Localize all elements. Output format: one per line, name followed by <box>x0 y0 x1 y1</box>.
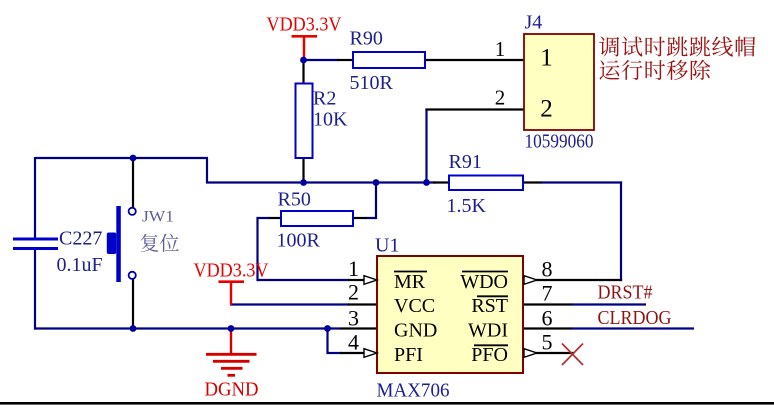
junction R2 bottom on bus <box>300 179 307 186</box>
svg-text:100R: 100R <box>277 230 321 252</box>
svg-text:1: 1 <box>495 37 506 61</box>
wire R50 branch jog to resistor <box>366 217 376 219</box>
wire R50 branch vertical from bus <box>375 181 377 219</box>
resistor R50 body <box>281 211 353 226</box>
junction J4-pin2 branch on bus <box>423 179 430 186</box>
svg-text:PFI: PFI <box>394 344 423 366</box>
svg-text:10K: 10K <box>313 109 348 131</box>
svg-text:WDO: WDO <box>460 271 508 293</box>
wire VCC net to U1 pin2 <box>230 303 349 305</box>
svg-text:PFO: PFO <box>471 344 508 366</box>
svg-text:510R: 510R <box>350 72 394 94</box>
svg-text:8: 8 <box>542 257 553 282</box>
wire to U1 pin1 <box>258 279 350 281</box>
pushbutton JW1 top contact <box>129 208 136 215</box>
label fuwei (reset) <box>141 234 159 252</box>
wire U1 pin6 black stub <box>524 327 572 329</box>
svg-text:0.1uF: 0.1uF <box>57 254 103 276</box>
IC U1 body <box>377 256 523 373</box>
svg-text:10599060: 10599060 <box>525 131 594 153</box>
svg-text:DRST#: DRST# <box>598 282 653 304</box>
U1 pin 4 input triangle <box>364 349 377 358</box>
wire U1 pin8 horizontal <box>536 279 622 281</box>
power VDD3.3V symbol (at U1 VCC) <box>219 282 245 305</box>
connector J4 body <box>524 34 594 130</box>
svg-text:2: 2 <box>540 96 553 123</box>
svg-text:VDD3.3V: VDD3.3V <box>267 14 342 36</box>
wire pin1 black stub <box>348 279 364 281</box>
svg-text:R91: R91 <box>449 151 482 173</box>
svg-text:MAX706: MAX706 <box>377 380 450 402</box>
wire button top black segment <box>132 157 134 208</box>
annotation line 2: yun xing shi yi chu <box>599 60 710 80</box>
junction at JW1 top <box>130 155 137 162</box>
svg-text:3: 3 <box>348 306 359 331</box>
wire DRST# net segment <box>571 303 646 305</box>
U1 pin 8 output triangle <box>524 276 537 285</box>
capacitor C227 top plate <box>13 238 58 241</box>
svg-text:DGND: DGND <box>205 379 259 401</box>
wire R50 left elbow down <box>258 217 270 219</box>
junction pin4 branch on ground net <box>324 325 331 332</box>
wire bottom ground net horizontal <box>34 327 340 329</box>
svg-text:R2: R2 <box>313 88 336 110</box>
U1 pin 5 output triangle <box>524 349 537 358</box>
svg-text:MR: MR <box>394 271 426 293</box>
resistor R2 body <box>296 84 313 159</box>
svg-text:RST: RST <box>471 295 508 317</box>
svg-text:2: 2 <box>495 86 506 110</box>
wire R50 right black stub <box>353 217 367 219</box>
pushbutton JW1 plunger bar <box>116 206 121 282</box>
wire bus after R91 black stub <box>523 181 542 183</box>
wire R2 bottom black stub <box>302 157 304 183</box>
svg-text:WDI: WDI <box>468 320 508 342</box>
wire pin4 black stub <box>340 352 364 354</box>
junction R50 branch on bus <box>373 179 380 186</box>
svg-text:U1: U1 <box>375 235 399 257</box>
svg-text:VCC: VCC <box>394 295 435 317</box>
sheet border bottom line <box>0 402 774 405</box>
wire middle bus <box>206 181 436 183</box>
wire pin4 branch vertical <box>326 327 328 354</box>
wire U1 pin5 black stub <box>536 352 574 354</box>
wire bus right segment <box>541 181 622 183</box>
svg-text:VDD3.3V: VDD3.3V <box>194 260 269 282</box>
wire VDD junction to R90 <box>303 59 339 61</box>
wire pin3 black stub <box>340 327 377 329</box>
U1 pin 1 input triangle <box>364 276 377 285</box>
junction at VDD/R90/R2 <box>300 57 307 64</box>
wire step-down at x=207 <box>206 158 208 183</box>
wire top-left horizontal net <box>35 157 208 159</box>
wire R90 left black stub <box>337 59 353 61</box>
svg-text:4: 4 <box>348 330 359 355</box>
svg-text:JW1: JW1 <box>142 209 174 226</box>
svg-text:GND: GND <box>394 320 437 342</box>
junction JW1 bottom on ground net <box>130 325 137 332</box>
svg-text:R90: R90 <box>350 28 383 50</box>
pushbutton JW1 bottom contact <box>129 272 136 279</box>
svg-text:R50: R50 <box>278 189 311 211</box>
wire R2 top black stub <box>302 59 304 84</box>
wire left vertical (below C227) <box>34 249 36 330</box>
wire vertical J4-pin2 to bus <box>425 109 427 184</box>
capacitor C227 bottom plate <box>13 247 58 250</box>
svg-text:J4: J4 <box>525 12 543 34</box>
wire vertical bus down to pin8 <box>620 181 622 281</box>
ground DGND symbol <box>206 328 257 376</box>
svg-text:2: 2 <box>348 280 359 305</box>
svg-text:6: 6 <box>542 306 553 331</box>
svg-text:CLRDOG: CLRDOG <box>598 307 672 329</box>
wire CLRDOG net segment <box>571 327 694 329</box>
annotation line 1: tiao shi shi tiao tiao xian mao <box>599 36 755 56</box>
wire J4 pin2 horizontal <box>425 108 525 110</box>
wire pin2 black stub <box>348 303 377 305</box>
svg-text:5: 5 <box>542 330 553 355</box>
resistor R91 body <box>449 176 523 191</box>
svg-text:1.5K: 1.5K <box>447 195 487 217</box>
wire R50 left black stub <box>268 217 281 219</box>
svg-text:1: 1 <box>540 45 553 72</box>
junction DGND on ground net <box>228 325 235 332</box>
wire pin4 branch horizontal <box>328 352 342 354</box>
resistor R90 body <box>353 52 425 68</box>
svg-text:C227: C227 <box>59 228 102 250</box>
wire left vertical (above C227) <box>34 157 36 239</box>
wire U1 pin7 black stub <box>524 303 572 305</box>
wire R90 right to J4 pin1 <box>425 59 525 61</box>
svg-text:7: 7 <box>542 281 553 306</box>
wire R91 left black stub <box>433 181 450 183</box>
no-connect X on pin 5 <box>562 344 583 366</box>
wire button bottom black segment <box>132 279 134 330</box>
svg-text:1: 1 <box>348 256 359 281</box>
power VDD3.3V symbol (top) <box>292 36 318 58</box>
pushbutton JW1 actuator <box>107 233 117 255</box>
